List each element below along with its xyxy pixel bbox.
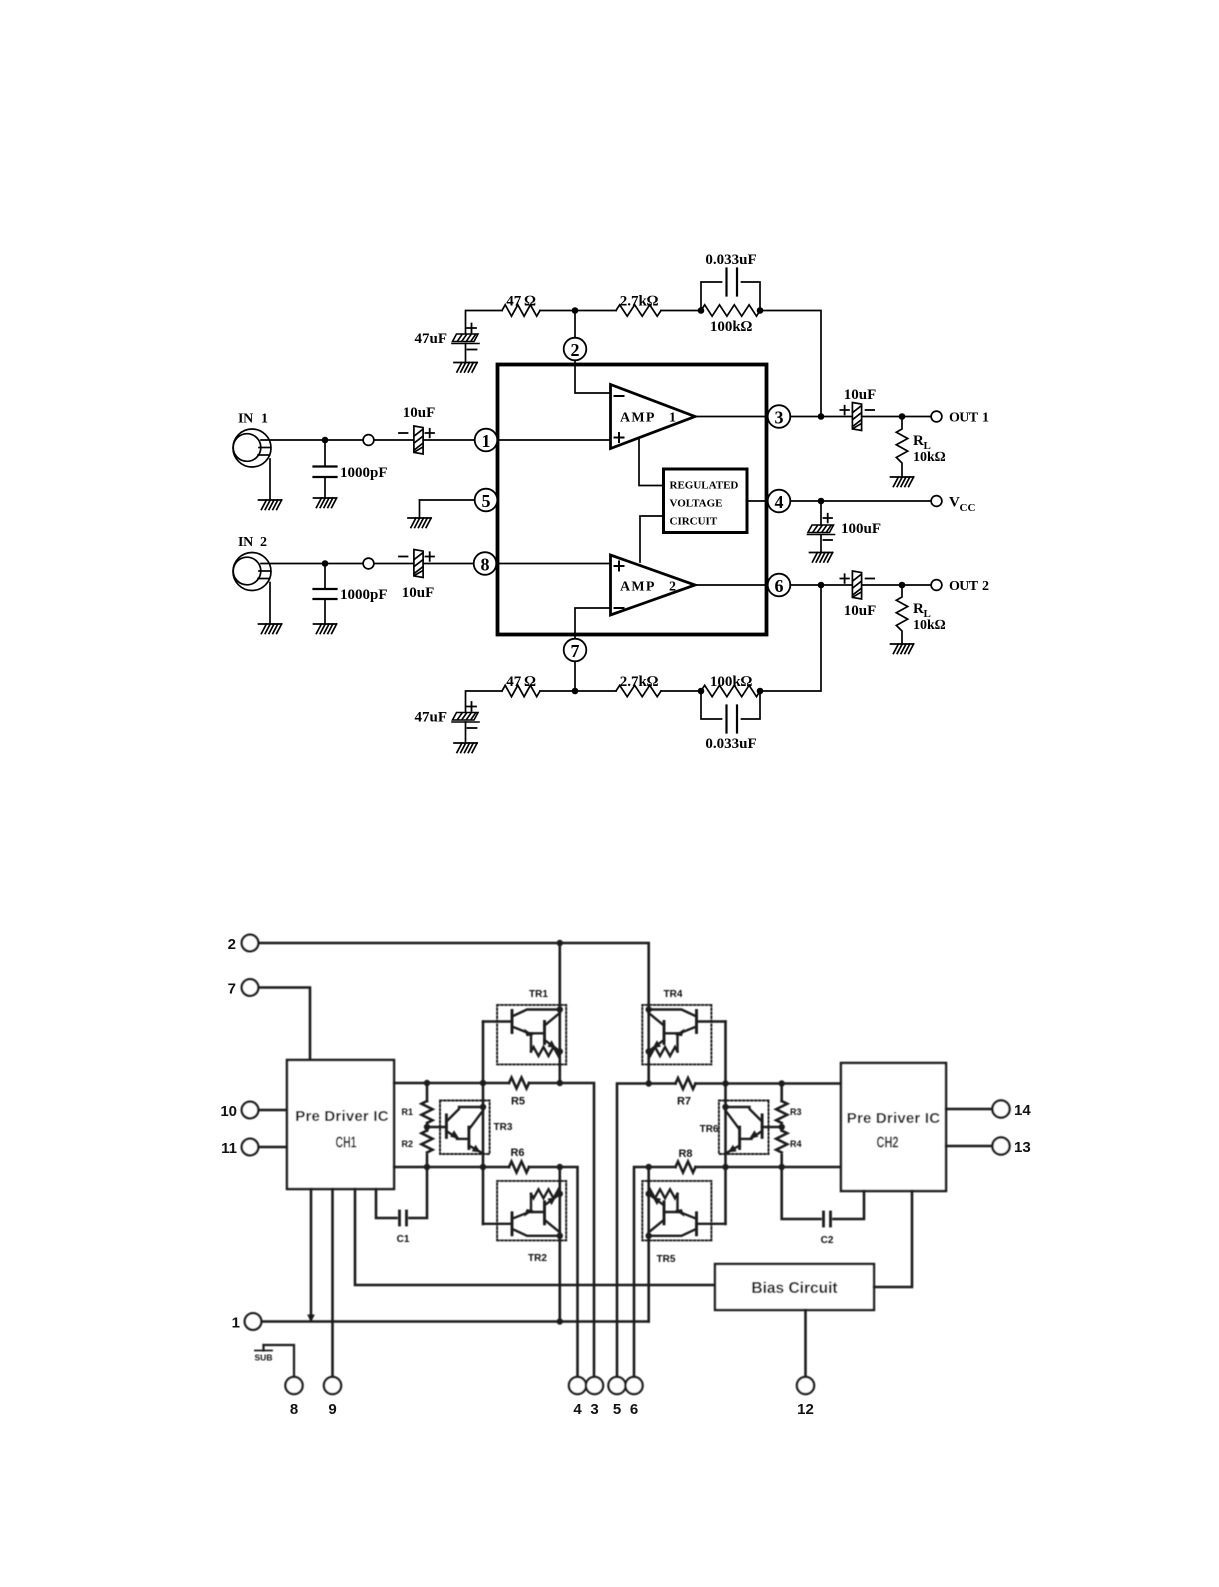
terminal 1 xyxy=(245,1313,262,1330)
svg-text:100kΩ: 100kΩ xyxy=(710,319,753,335)
ground RL2 xyxy=(891,644,914,654)
node CH1top-base xyxy=(480,1080,486,1086)
svg-text:0.033uF: 0.033uF xyxy=(705,252,756,268)
ground 47uF bottom xyxy=(454,743,477,753)
svg-text:14: 14 xyxy=(1014,1102,1031,1119)
resistor R3 xyxy=(776,1084,787,1131)
svg-text:3: 3 xyxy=(590,1401,598,1418)
terminal 6 xyxy=(625,1377,642,1394)
capacitor 1000pF (IN2) xyxy=(314,564,337,625)
svg-text:2: 2 xyxy=(260,535,267,550)
svg-text:TR2: TR2 xyxy=(528,1253,547,1264)
svg-text:C1: C1 xyxy=(397,1234,410,1245)
svg-text:10kΩ: 10kΩ xyxy=(913,618,946,633)
svg-text:SUB: SUB xyxy=(255,1353,273,1363)
node out1 RL xyxy=(899,413,906,420)
svg-text:Pre Driver IC: Pre Driver IC xyxy=(295,1108,388,1125)
wire reg box to amp2 xyxy=(640,516,664,562)
svg-text:11: 11 xyxy=(221,1140,237,1157)
op-amp AMP2 xyxy=(611,555,696,615)
wire pin8 to amp2 plus xyxy=(496,563,610,565)
svg-text:12: 12 xyxy=(797,1401,814,1418)
wire pin5 xyxy=(420,499,475,501)
svg-text:6: 6 xyxy=(630,1401,638,1418)
svg-text:47 Ω: 47 Ω xyxy=(506,294,536,310)
svg-text:TR3: TR3 xyxy=(494,1122,513,1133)
node R7-TR4 xyxy=(646,1080,652,1086)
svg-text:1: 1 xyxy=(232,1315,240,1332)
svg-text:CH2: CH2 xyxy=(877,1135,899,1152)
node B row1 100k left xyxy=(698,307,705,314)
node out2 RL xyxy=(899,582,906,589)
svg-text:CH1: CH1 xyxy=(336,1135,357,1152)
wire TR2 supply lower xyxy=(558,1167,561,1322)
terminal 14 xyxy=(992,1100,1009,1117)
svg-text:IN: IN xyxy=(238,412,253,427)
svg-text:TR5: TR5 xyxy=(657,1254,676,1265)
transistor TR2 xyxy=(483,1181,566,1241)
terminal 11 xyxy=(242,1139,259,1156)
wire CH1 leg pin9 xyxy=(331,1189,334,1377)
svg-text:Pre Driver IC: Pre Driver IC xyxy=(847,1110,940,1127)
wire TR6 base xyxy=(762,1126,782,1129)
wire pin13 xyxy=(946,1145,993,1148)
wire R6 to pin4 xyxy=(529,1167,578,1377)
resistor R5 xyxy=(509,1078,529,1089)
svg-text:4: 4 xyxy=(775,492,784,512)
resistor 2.7k (top) xyxy=(616,305,661,316)
svg-text:1: 1 xyxy=(982,411,989,426)
node out1 fb xyxy=(818,413,825,420)
pin 8 xyxy=(474,552,497,575)
capacitor 10uF (out2) xyxy=(852,571,861,599)
capacitor 0.033uF (top) xyxy=(701,269,760,311)
wire TR1 supply upper xyxy=(558,943,561,1083)
svg-text:1: 1 xyxy=(669,411,676,426)
svg-text:10kΩ: 10kΩ xyxy=(913,450,946,465)
svg-text:R: R xyxy=(913,433,924,449)
transistor TR4 xyxy=(642,1005,725,1065)
wire IN2 row xyxy=(261,563,475,565)
svg-text:8: 8 xyxy=(290,1401,298,1418)
ground pin5 xyxy=(408,518,431,528)
svg-text:VOLTAGE: VOLTAGE xyxy=(670,498,723,510)
transistor TR5 xyxy=(642,1181,725,1241)
ground RL1 xyxy=(891,477,914,487)
svg-text:47uF: 47uF xyxy=(414,331,447,347)
node R7-R3 xyxy=(779,1080,785,1086)
resistor R2 xyxy=(422,1131,433,1168)
capacitor 47uF (bottom) xyxy=(414,702,479,743)
svg-text:7: 7 xyxy=(228,981,236,998)
transistor TR6 xyxy=(719,1101,769,1155)
node R3-R4 xyxy=(779,1124,785,1130)
node vcc xyxy=(818,498,825,505)
svg-text:10uF: 10uF xyxy=(403,405,436,421)
node R8-R4 xyxy=(779,1164,785,1170)
terminal 10 xyxy=(242,1102,259,1119)
wire R7 line xyxy=(617,1078,841,1377)
svg-text:13: 13 xyxy=(1014,1139,1031,1156)
svg-text:TR1: TR1 xyxy=(529,989,548,1000)
svg-text:8: 8 xyxy=(481,555,490,575)
svg-text:100kΩ: 100kΩ xyxy=(710,674,753,690)
resistor R1 xyxy=(422,1083,433,1131)
svg-text:5: 5 xyxy=(613,1401,621,1418)
wire pin3 out row xyxy=(790,416,930,418)
node IN2 xyxy=(322,560,329,567)
wire pin10 xyxy=(259,1109,288,1112)
svg-text:2: 2 xyxy=(669,580,676,595)
resistor 47ohm (top) xyxy=(502,305,540,316)
open circle IN2 xyxy=(363,558,374,569)
terminal OUT2 xyxy=(931,580,942,591)
capacitor 10uF (IN2) xyxy=(414,550,423,578)
pre driver IC CH2 box xyxy=(841,1063,946,1191)
wire base chain right xyxy=(724,1022,727,1225)
resistor RL 10k (out2) xyxy=(896,585,907,644)
pin 1 xyxy=(475,429,498,452)
svg-text:AMP: AMP xyxy=(620,580,656,595)
wire pin6 out row xyxy=(790,584,930,586)
wire TR3 base xyxy=(427,1126,446,1129)
pre driver IC CH1 box xyxy=(287,1060,394,1189)
svg-text:OUT: OUT xyxy=(949,411,979,426)
node R6-TR2 xyxy=(557,1164,563,1170)
svg-text:3: 3 xyxy=(775,408,784,428)
ground 1000pF IN2 xyxy=(314,624,337,634)
wire amp2 out to pin6 xyxy=(695,584,767,586)
node CH1bot-base xyxy=(480,1164,486,1170)
resistor R4 xyxy=(776,1131,787,1168)
wire TR5 supply lower xyxy=(647,1167,650,1322)
resistor 2.7k (bottom) xyxy=(616,685,661,696)
terminal 4 xyxy=(569,1377,586,1394)
node CH1top-R1 xyxy=(424,1080,430,1086)
svg-text:R2: R2 xyxy=(401,1139,413,1149)
svg-text:Bias Circuit: Bias Circuit xyxy=(751,1280,837,1297)
node F row2 100k right xyxy=(757,688,764,695)
wire amp1 to reg box xyxy=(639,439,664,486)
wire amp2 minus to pin7 to row2 xyxy=(575,608,611,691)
transistor TR1 xyxy=(483,1005,566,1065)
wire pin4 vcc row xyxy=(790,500,930,502)
wire CH1 leg bias xyxy=(355,1189,715,1285)
regulated voltage circuit box xyxy=(664,469,748,533)
node R1-R2 xyxy=(424,1124,430,1130)
svg-text:CC: CC xyxy=(960,502,976,514)
node R5-TR1 xyxy=(557,1080,563,1086)
svg-text:2: 2 xyxy=(228,936,236,953)
svg-text:1: 1 xyxy=(261,412,268,427)
svg-text:2.7kΩ: 2.7kΩ xyxy=(620,294,659,310)
capacitor 47uF (top) xyxy=(414,324,479,363)
ground 100uF xyxy=(810,553,833,563)
resistor R6 xyxy=(509,1162,529,1173)
pin 5 xyxy=(475,489,498,512)
node CH1bot-R2 xyxy=(424,1164,430,1170)
svg-text:9: 9 xyxy=(328,1401,336,1418)
pin number labels xyxy=(220,936,1031,1418)
svg-text:V: V xyxy=(949,495,960,511)
node IN1 xyxy=(322,437,329,444)
terminal 9 xyxy=(324,1377,341,1394)
capacitor C1 xyxy=(376,1167,427,1225)
terminal VCC xyxy=(931,496,942,507)
ground IN2 jack xyxy=(259,624,282,634)
wire CH1 bottom output xyxy=(394,1166,509,1169)
node R8-TR5 xyxy=(646,1164,652,1170)
pin 6 xyxy=(768,574,791,597)
svg-text:REGULATED: REGULATED xyxy=(670,480,739,492)
svg-text:R3: R3 xyxy=(790,1107,802,1117)
wire CH1 top output xyxy=(394,1082,509,1085)
wire pin14 xyxy=(946,1108,993,1111)
svg-text:R: R xyxy=(913,601,924,617)
svg-text:R7: R7 xyxy=(677,1096,691,1108)
wire feedback row 1 xyxy=(466,311,822,417)
svg-text:CIRCUIT: CIRCUIT xyxy=(670,516,718,528)
svg-text:C2: C2 xyxy=(821,1235,834,1246)
svg-text:TR4: TR4 xyxy=(664,989,683,1000)
node D row2-pin7 xyxy=(572,688,579,695)
svg-text:10uF: 10uF xyxy=(844,603,877,619)
resistor 100k (top) xyxy=(701,305,760,316)
node out2 fb xyxy=(818,582,825,589)
wire CH1 leg a xyxy=(310,1189,313,1319)
terminal OUT1 xyxy=(931,411,942,422)
node C row1 100k right xyxy=(757,307,764,314)
capacitor 1000pF (IN1) xyxy=(314,440,337,498)
ground IN1 jack xyxy=(259,500,282,510)
resistor 100k (bottom) xyxy=(701,685,760,696)
wire pin1 to amp1 plus xyxy=(497,439,610,441)
svg-text:7: 7 xyxy=(571,641,580,661)
wire IN1 row xyxy=(261,439,475,441)
capacitor 10uF (out1) xyxy=(852,403,861,431)
svg-text:R8: R8 xyxy=(678,1148,692,1160)
wire pin11 xyxy=(259,1146,288,1149)
node bus-TR2 xyxy=(557,1318,563,1324)
svg-text:47 Ω: 47 Ω xyxy=(506,674,536,690)
capacitor 0.033uF (bottom) xyxy=(701,691,760,733)
ground 47uF top xyxy=(454,363,477,373)
svg-text:2: 2 xyxy=(982,579,989,594)
terminal 7 xyxy=(242,979,259,996)
wire bias right to CH2 xyxy=(874,1191,912,1287)
wire R8 line xyxy=(634,1162,841,1378)
node R7-base xyxy=(722,1080,728,1086)
svg-text:5: 5 xyxy=(482,491,491,511)
resistor RL 10k (out1) xyxy=(896,417,907,478)
svg-text:10uF: 10uF xyxy=(402,585,435,601)
bias circuit box xyxy=(715,1264,874,1310)
pin 7 xyxy=(564,639,587,662)
wire amp1 out to pin3 xyxy=(695,416,767,418)
node R8-base xyxy=(722,1164,728,1170)
svg-text:R1: R1 xyxy=(401,1107,413,1117)
pin 2 xyxy=(564,338,587,361)
terminal 12 xyxy=(797,1377,814,1394)
svg-text:TR6: TR6 xyxy=(700,1124,719,1135)
IC body U1 xyxy=(498,365,767,635)
wire out2 fb down xyxy=(760,585,821,691)
wire pin12 xyxy=(804,1310,807,1377)
svg-text:0.033uF: 0.033uF xyxy=(705,736,756,752)
svg-text:R6: R6 xyxy=(510,1147,524,1159)
node SUB wire xyxy=(255,1345,294,1377)
pin 4 xyxy=(768,490,791,513)
svg-text:2.7kΩ: 2.7kΩ xyxy=(620,674,659,690)
capacitor 10uF (IN1) xyxy=(414,426,423,454)
svg-text:47uF: 47uF xyxy=(414,710,447,726)
svg-text:4: 4 xyxy=(573,1401,582,1418)
terminal 13 xyxy=(992,1137,1009,1154)
ground 1000pF IN1 xyxy=(314,498,337,508)
svg-text:6: 6 xyxy=(775,576,784,596)
svg-text:OUT: OUT xyxy=(949,579,979,594)
svg-text:R5: R5 xyxy=(511,1096,525,1108)
node E row2 100k left xyxy=(698,688,705,695)
svg-text:1: 1 xyxy=(482,431,491,451)
node pin2-TR1 xyxy=(557,940,563,946)
wire base chain left xyxy=(482,1022,485,1225)
transistor TR3 xyxy=(440,1101,490,1155)
svg-text:R4: R4 xyxy=(790,1139,802,1149)
svg-text:2: 2 xyxy=(571,340,580,360)
wire pin2 rail xyxy=(259,943,649,1084)
wire reg to pin4 xyxy=(747,500,767,502)
open circle IN1 xyxy=(363,435,374,446)
terminal 8 xyxy=(285,1377,302,1394)
terminal 5 xyxy=(608,1377,625,1394)
terminal 2 xyxy=(242,935,259,952)
connector IN2 jack xyxy=(233,553,271,625)
svg-text:100uF: 100uF xyxy=(841,521,881,537)
terminal 3 xyxy=(586,1377,603,1394)
wire feedback row 2 xyxy=(466,691,702,712)
svg-text:1000pF: 1000pF xyxy=(340,465,388,481)
op-amp AMP1 xyxy=(611,385,696,449)
wire R5 to pin3 xyxy=(529,1083,594,1377)
capacitor C2 xyxy=(782,1167,864,1226)
svg-text:IN: IN xyxy=(238,535,253,550)
node A row1-pin2 xyxy=(572,307,579,314)
capacitor 100uF xyxy=(808,501,882,553)
resistor 47ohm (bottom) xyxy=(502,685,540,696)
wire pin1 bus xyxy=(262,1320,649,1323)
svg-text:10uF: 10uF xyxy=(844,387,877,403)
svg-text:1000pF: 1000pF xyxy=(340,587,388,603)
connector IN1 jack xyxy=(233,429,271,500)
pin 3 xyxy=(768,405,791,428)
wire pin7 xyxy=(259,988,311,1061)
wire pin2 to amp1 minus xyxy=(575,311,611,394)
svg-text:AMP: AMP xyxy=(620,411,656,426)
svg-text:10: 10 xyxy=(220,1103,237,1120)
